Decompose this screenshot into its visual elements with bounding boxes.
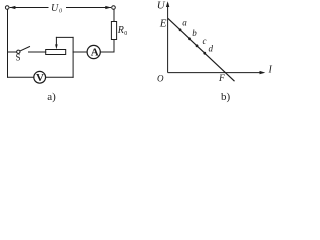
svg-text:0: 0 — [124, 31, 127, 37]
svg-text:a: a — [182, 17, 187, 27]
svg-text:F: F — [218, 74, 225, 84]
svg-text:0: 0 — [59, 9, 62, 15]
dimension arrow left — [10, 7, 48, 9]
wire left vertical — [7, 9, 9, 77]
wire bottom rail 2 — [46, 76, 74, 78]
axis U — [167, 3, 169, 73]
dimension arrow right — [67, 7, 111, 9]
load line EF — [168, 18, 235, 81]
wire junction to ammeter — [73, 51, 87, 53]
arrowhead axis U — [166, 1, 169, 7]
svg-text:S: S — [16, 53, 21, 63]
point b — [188, 37, 191, 40]
rheostat wiper arrow — [55, 37, 57, 45]
svg-text:b: b — [192, 28, 197, 38]
switch S pivot — [17, 50, 20, 53]
svg-text:I: I — [268, 65, 273, 76]
arrowhead axis I — [260, 71, 266, 74]
rheostat box — [46, 50, 66, 55]
svg-text:E: E — [159, 17, 167, 29]
wire right vertical (wiper/junction) — [72, 37, 74, 77]
svg-text:a): a) — [47, 91, 56, 103]
wire bottom rail — [8, 76, 34, 78]
svg-text:b): b) — [221, 91, 231, 103]
wire wiper top — [56, 36, 73, 38]
arrowhead dim left — [9, 6, 15, 9]
arrowhead dim right — [105, 6, 111, 9]
point d — [203, 52, 206, 55]
voltmeter V — [34, 71, 46, 83]
svg-text:A: A — [91, 46, 99, 58]
terminal left — [5, 6, 9, 10]
arrowhead wiper — [55, 44, 58, 49]
svg-text:U: U — [157, 0, 166, 11]
terminal right — [112, 6, 116, 10]
resistor R0 — [111, 22, 116, 40]
wire ammeter to R0 — [100, 51, 114, 53]
wire R0 top — [113, 9, 115, 21]
svg-text:U: U — [51, 3, 59, 14]
axis I — [168, 72, 264, 74]
svg-text:c: c — [203, 36, 207, 46]
ammeter A — [87, 45, 100, 58]
wire switch to rheostat — [29, 51, 46, 53]
svg-text:O: O — [157, 73, 164, 83]
wire R0 bottom — [113, 40, 115, 53]
graph axes — [168, 3, 264, 81]
svg-text:R: R — [117, 25, 124, 36]
wire middle: left to switch — [8, 51, 17, 53]
point c — [196, 44, 199, 47]
point a — [179, 28, 182, 31]
svg-text:V: V — [36, 72, 44, 84]
svg-text:d: d — [209, 43, 214, 53]
switch S blade — [20, 47, 30, 51]
